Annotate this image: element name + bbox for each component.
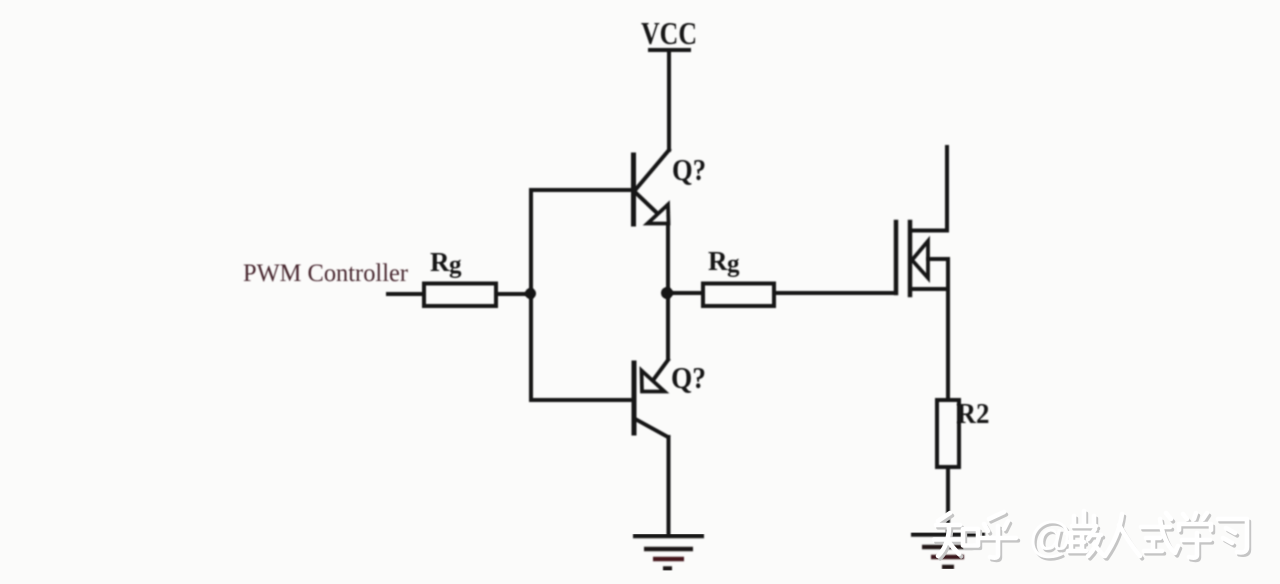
- svg-text:Q?: Q?: [672, 152, 706, 187]
- svg-text:@: @: [1028, 513, 1073, 562]
- svg-text:g: g: [449, 252, 462, 279]
- svg-text:PWM Controller: PWM Controller: [243, 260, 409, 287]
- svg-text:R: R: [708, 246, 728, 276]
- svg-text:g: g: [727, 251, 740, 278]
- svg-text:VCC: VCC: [641, 15, 697, 51]
- svg-text:R: R: [430, 247, 450, 277]
- svg-text:R2: R2: [957, 398, 990, 430]
- svg-text:Q?: Q?: [671, 360, 706, 395]
